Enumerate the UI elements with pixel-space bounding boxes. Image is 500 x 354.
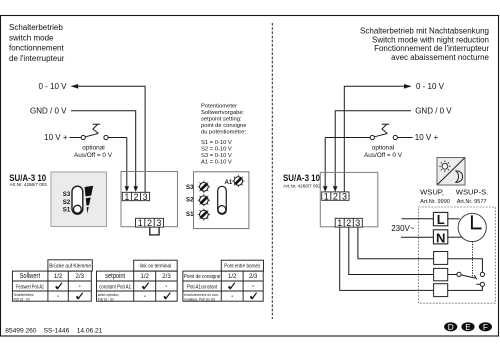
svg-text:avec abaissement nocturne: avec abaissement nocturne <box>391 53 489 62</box>
svg-text:Schalterbetrieb mit Nachtabsen: Schalterbetrieb mit Nachtabsenkung <box>360 26 489 35</box>
svg-text:Art.Nr. 4266/7 002: Art.Nr. 4266/7 002 <box>283 184 321 189</box>
svg-text:link on terminal: link on terminal <box>140 264 172 270</box>
svg-text:S3: S3 <box>63 191 71 198</box>
svg-text:switch operation,: switch operation, <box>98 293 120 297</box>
svg-text:setpoint: setpoint <box>105 273 125 280</box>
svg-text:du potentiomètre:: du potentiomètre: <box>201 130 247 136</box>
svg-text:S2: S2 <box>63 199 71 206</box>
svg-text:1/2: 1/2 <box>140 273 149 280</box>
svg-text:2: 2 <box>333 192 338 202</box>
svg-text:Aus/Off = 0 V: Aus/Off = 0 V <box>364 152 403 159</box>
svg-text:1: 1 <box>124 192 129 202</box>
svg-text:optional: optional <box>372 144 394 151</box>
svg-text:F: F <box>483 323 488 332</box>
svg-text:3: 3 <box>342 192 347 202</box>
svg-text:fonctionnement du com-: fonctionnement du com- <box>184 293 220 297</box>
svg-text:85499 260: 85499 260 <box>5 327 37 334</box>
svg-text:1: 1 <box>138 218 143 228</box>
svg-text:A1: A1 <box>225 179 233 186</box>
svg-text:Festwert Poti A1: Festwert Poti A1 <box>16 284 44 290</box>
svg-text:optional: optional <box>82 144 104 151</box>
svg-text:Aus/Off = 0 V: Aus/Off = 0 V <box>74 152 113 159</box>
svg-text:Poti A1constant: Poti A1constant <box>187 284 217 290</box>
svg-text:3: 3 <box>156 218 161 228</box>
svg-text:-: - <box>57 294 59 300</box>
svg-text:WSUP,: WSUP, <box>420 187 444 196</box>
svg-text:A1 = 0-10 V: A1 = 0-10 V <box>201 160 232 166</box>
svg-text:Point de consigne: Point de consigne <box>184 274 221 280</box>
svg-text:Poti S1 - S3: Poti S1 - S3 <box>98 297 114 301</box>
svg-text:-: - <box>79 284 81 290</box>
svg-text:-: - <box>144 294 146 300</box>
svg-text:Art.Nr. 9577: Art.Nr. 9577 <box>457 199 487 205</box>
svg-text:Art.Nr. 9990: Art.Nr. 9990 <box>420 199 450 205</box>
svg-text:1/2: 1/2 <box>54 273 63 280</box>
svg-text:1: 1 <box>324 192 329 202</box>
svg-text:2: 2 <box>147 218 152 228</box>
svg-text:Sollwertvorgabe:: Sollwertvorgabe: <box>201 110 245 116</box>
svg-text:Schalterbetrieb,: Schalterbetrieb, <box>14 293 35 297</box>
svg-text:SU/A-3 10: SU/A-3 10 <box>283 173 320 183</box>
svg-text:230V~: 230V~ <box>391 224 415 233</box>
svg-text:fonctionnement: fonctionnement <box>9 44 64 53</box>
svg-text:N: N <box>436 230 445 245</box>
svg-text:SS-1446: SS-1446 <box>44 327 70 334</box>
svg-text:S1: S1 <box>63 206 71 213</box>
svg-text:Poti S1 - S3: Poti S1 - S3 <box>14 297 30 301</box>
svg-text:de l'interrupteur: de l'interrupteur <box>9 54 65 63</box>
svg-text:0 - 10 V: 0 - 10 V <box>416 82 445 91</box>
svg-text:Switch mode with night reducti: Switch mode with night reduction <box>372 35 489 44</box>
svg-text:switch mode: switch mode <box>9 33 54 42</box>
svg-text:E: E <box>465 323 471 332</box>
svg-text:2/3: 2/3 <box>162 273 171 280</box>
svg-text:GND / 0 V: GND / 0 V <box>415 107 452 116</box>
svg-text:1/2: 1/2 <box>228 273 237 280</box>
svg-text:Sollwert: Sollwert <box>20 273 41 280</box>
svg-text:Pont entre bornes: Pont entre bornes <box>224 264 260 270</box>
svg-text:S3: S3 <box>186 184 194 191</box>
svg-text:14.06.21: 14.06.21 <box>77 327 103 334</box>
svg-text:S1: S1 <box>186 211 194 218</box>
svg-text:S2: S2 <box>186 197 194 204</box>
svg-text:S1 = 0-10 V: S1 = 0-10 V <box>201 140 232 146</box>
svg-text:S2 = 0-10 V: S2 = 0-10 V <box>201 147 232 153</box>
svg-text:3: 3 <box>355 218 360 228</box>
svg-text:mutateur, Poti S1-S3: mutateur, Poti S1-S3 <box>184 297 215 301</box>
svg-text:constant Poti A1: constant Poti A1 <box>99 284 131 290</box>
svg-text:point de consigne: point de consigne <box>201 123 246 129</box>
svg-text:1: 1 <box>337 218 342 228</box>
svg-text:0 - 10 V: 0 - 10 V <box>38 82 67 91</box>
svg-text:2/3: 2/3 <box>76 273 85 280</box>
svg-text:3: 3 <box>143 192 148 202</box>
svg-text:Art.Nr. 4266/7 002: Art.Nr. 4266/7 002 <box>10 182 48 187</box>
svg-text:-: - <box>252 284 254 290</box>
svg-text:2: 2 <box>346 218 351 228</box>
svg-text:setpoint setting:: setpoint setting: <box>201 117 242 123</box>
svg-text:10 V +: 10 V + <box>415 133 439 142</box>
svg-text:2/3: 2/3 <box>249 273 258 280</box>
svg-text:WSUP-S.: WSUP-S. <box>456 187 489 196</box>
svg-text:L: L <box>437 212 445 227</box>
svg-text:D: D <box>448 323 454 332</box>
svg-text:Fonctionnement de l'interrupte: Fonctionnement de l'interrupteur <box>374 44 489 53</box>
svg-text:Brücke auf Klemme: Brücke auf Klemme <box>49 263 91 269</box>
svg-text:10 V +: 10 V + <box>44 133 68 142</box>
svg-text:Schalterbetrieb: Schalterbetrieb <box>9 23 63 32</box>
svg-text:Potentiometer: Potentiometer <box>201 104 237 110</box>
svg-text:2: 2 <box>133 192 138 202</box>
svg-text:-: - <box>165 284 167 290</box>
svg-text:GND / 0 V: GND / 0 V <box>30 107 67 116</box>
svg-text:S3 = 0-10 V: S3 = 0-10 V <box>201 153 232 159</box>
svg-text:-: - <box>231 294 233 300</box>
